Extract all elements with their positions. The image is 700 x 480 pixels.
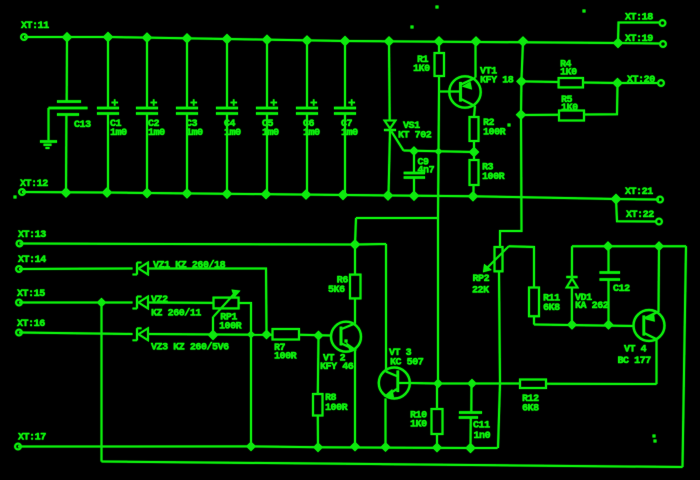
terminal XT:15 bbox=[16, 300, 22, 306]
capacitor C3 bottom plate bbox=[176, 112, 198, 114]
wire R7 left lead bbox=[267, 334, 273, 336]
transistor VT2 base bar bbox=[340, 327, 343, 346]
wire C6 top lead bbox=[306, 40, 308, 108]
junction bottom rail 2 bbox=[103, 188, 112, 197]
junction VT2 collector/XT13 node bbox=[351, 240, 360, 249]
capacitor C5 polarity plus bbox=[271, 102, 278, 104]
svg-text:XT:15: XT:15 bbox=[17, 289, 45, 300]
svg-text:1n0: 1n0 bbox=[474, 431, 491, 442]
wire VT2 emitter lead bbox=[354, 350, 356, 447]
junction C9/VS1 gate node bbox=[410, 147, 418, 155]
junction top rail 9 bbox=[385, 37, 394, 46]
svg-text:KZ 260/11: KZ 260/11 bbox=[151, 308, 201, 320]
svg-text:VZ1 KZ 260/18: VZ1 KZ 260/18 bbox=[153, 260, 226, 272]
diode VD1 triangle bbox=[567, 279, 578, 288]
junction bottom rail 9 bbox=[384, 191, 393, 200]
svg-text:VZ3 KZ 260/5V6: VZ3 KZ 260/5V6 bbox=[151, 342, 229, 354]
svg-text:XT:19: XT:19 bbox=[625, 34, 653, 45]
junction VT4 collector node bbox=[655, 242, 663, 250]
wire VT4 emitter lead bbox=[656, 339, 658, 384]
zener diode VZ3 triangle bbox=[139, 328, 149, 340]
transistor VT3 base bar bbox=[396, 371, 399, 393]
zener diode VZ1 cathode bar bbox=[136, 263, 138, 275]
junction top rail 6 bbox=[263, 35, 272, 44]
svg-text:KC 507: KC 507 bbox=[390, 358, 424, 369]
svg-text:1m0: 1m0 bbox=[224, 128, 241, 139]
capacitor C13 middle plate bbox=[49, 107, 88, 109]
wire bottom return rail bbox=[102, 462, 683, 468]
junction top rail 1 bbox=[63, 33, 72, 42]
wire C3 top lead bbox=[186, 38, 188, 108]
transistor VT3 emitter stroke bbox=[386, 389, 398, 396]
capacitor C12 bottom plate bbox=[600, 278, 621, 280]
capacitor C5 top plate bbox=[256, 107, 278, 109]
junction bottom rail 7 bbox=[302, 190, 311, 199]
transistor VT1 arrow bbox=[464, 83, 471, 88]
junction XT21 node bbox=[612, 195, 621, 204]
junction top rail 11 bbox=[472, 37, 481, 46]
junction top rail 10 bbox=[435, 37, 444, 46]
wire VZ2 line left bbox=[102, 302, 133, 304]
wire C11 bottom lead bbox=[470, 418, 472, 449]
wire VZ3 line right bbox=[148, 333, 267, 336]
transistor VT4 arrow bbox=[648, 315, 654, 320]
svg-text:1K0: 1K0 bbox=[410, 420, 427, 431]
wire C1 bottom lead bbox=[107, 114, 109, 193]
junction XT17 RP1 node bbox=[247, 442, 255, 450]
capacitor C11 top plate bbox=[459, 411, 482, 413]
junction C11 top node bbox=[468, 380, 476, 388]
wire VZ2 to RP1 bbox=[148, 302, 214, 304]
wire C2 top lead bbox=[146, 38, 148, 108]
svg-text:C11: C11 bbox=[473, 421, 490, 432]
wire R5 left lead bbox=[521, 114, 559, 116]
svg-text:5K6: 5K6 bbox=[328, 285, 345, 296]
wire VT3 base drop bbox=[385, 244, 387, 369]
svg-text:6K8: 6K8 bbox=[543, 303, 560, 314]
wire R4 left lead bbox=[521, 80, 558, 83]
wire R6 bottom lead / VT2 collector bbox=[354, 298, 356, 323]
junction bottom rail 11 bbox=[469, 192, 478, 201]
junction R7 left node bbox=[262, 330, 270, 338]
wire C6 bottom lead bbox=[306, 114, 308, 195]
capacitor C3 top plate bbox=[176, 107, 198, 109]
wire XT:13 line bbox=[20, 244, 387, 245]
resistor R5 1K0 body bbox=[559, 111, 584, 121]
capacitor C4 top plate bbox=[216, 107, 238, 109]
wire C5 bottom lead bbox=[266, 114, 268, 195]
wire R10 top lead bbox=[436, 384, 438, 410]
junction bottom rail 5 bbox=[223, 189, 232, 198]
svg-text:VT 4: VT 4 bbox=[624, 345, 647, 356]
wire R4 right lead bbox=[583, 82, 618, 85]
wire VS1 anode lead bbox=[388, 41, 391, 120]
wire VT1 base vertical bbox=[438, 92, 439, 384]
terminal XT:21 bbox=[657, 197, 663, 203]
junction XT17 R10 node bbox=[433, 443, 441, 451]
wire VT1 base bbox=[439, 91, 460, 93]
wire XT:15 net vertical bbox=[101, 303, 103, 462]
capacitor C1 bottom plate bbox=[97, 112, 119, 114]
svg-text:100R: 100R bbox=[482, 172, 505, 183]
wire bottom rail XT:12 bbox=[22, 192, 616, 199]
svg-text:100R: 100R bbox=[483, 128, 506, 139]
wire C12 top lead bbox=[608, 246, 610, 272]
transistor VT1 circle bbox=[449, 76, 480, 107]
wire XT:19 stub bbox=[618, 42, 660, 45]
svg-text:1K0: 1K0 bbox=[561, 103, 578, 114]
transistor VT4 emitter stroke bbox=[644, 333, 657, 339]
junction R4/XT20 node bbox=[613, 79, 622, 88]
transistor VT2 arrow bbox=[348, 345, 355, 351]
capacitor C1 polarity plus bbox=[112, 102, 119, 104]
wire VS1 gate lead bbox=[392, 132, 404, 151]
capacitor C7 top plate bbox=[334, 107, 356, 109]
wire C7 bottom lead bbox=[344, 114, 346, 196]
resistor R6 5K6 body bbox=[350, 275, 361, 299]
wire R1 bottom lead bbox=[438, 76, 440, 92]
junction bottom rail 4 bbox=[183, 189, 192, 198]
wire VT3 emitter lead bbox=[385, 399, 387, 448]
svg-text:XT:13: XT:13 bbox=[18, 230, 46, 241]
svg-text:1m0: 1m0 bbox=[341, 128, 358, 139]
transistor VT1 collector stroke bbox=[461, 78, 475, 85]
junction top rail 13 bbox=[614, 39, 623, 48]
terminal XT:13 bbox=[17, 241, 23, 247]
potentiometer RP1 100R body bbox=[214, 298, 239, 309]
potentiometer RP1 wiper arrow bbox=[214, 294, 235, 317]
diode VD1 cathode bar bbox=[566, 276, 577, 278]
transistor VT1 base bar bbox=[459, 82, 462, 102]
capacitor C13 top plate bbox=[57, 100, 81, 102]
svg-text:KFY 18: KFY 18 bbox=[480, 76, 514, 87]
wire C7 top lead bbox=[344, 41, 346, 108]
wire VD1 top lead bbox=[571, 246, 573, 276]
wire XT:20 stub bbox=[618, 82, 659, 84]
capacitor C2 bottom plate bbox=[136, 112, 158, 114]
junction C12 bottom node bbox=[604, 321, 612, 329]
wire C12 bottom lead bbox=[608, 280, 610, 325]
capacitor C1 top plate bbox=[97, 107, 119, 109]
svg-text:22K: 22K bbox=[472, 286, 489, 297]
svg-text:1m0: 1m0 bbox=[303, 128, 320, 139]
wire C13 bottom lead bbox=[65, 115, 67, 193]
junction bottom rail 12 bbox=[612, 195, 621, 204]
zener diode VZ1 triangle bbox=[139, 263, 149, 275]
svg-text:1K0: 1K0 bbox=[413, 64, 430, 75]
svg-text:1m0: 1m0 bbox=[262, 128, 279, 139]
junction XT17 VT2 node bbox=[351, 442, 359, 450]
capacitor C13 bottom plate bbox=[57, 113, 79, 115]
junction bottom rail 3 bbox=[143, 189, 152, 198]
svg-text:4n7: 4n7 bbox=[418, 166, 435, 177]
svg-text:1m0: 1m0 bbox=[186, 128, 203, 139]
capacitor C7 bottom plate bbox=[334, 112, 356, 114]
wire RP2 bottom lead bbox=[498, 271, 500, 448]
potentiometer RP2 22K body bbox=[495, 247, 503, 271]
wire VZ1 line right bbox=[148, 269, 267, 335]
thyristor VS1 cathode bar bbox=[384, 129, 396, 131]
terminal XT:12 bbox=[19, 189, 25, 195]
wire VS1 cathode lead bbox=[389, 131, 391, 196]
resistor R2 100R body bbox=[470, 117, 479, 141]
junction top rail 3 bbox=[143, 33, 152, 42]
zener diode VZ2 cathode bar bbox=[136, 297, 138, 309]
capacitor C7 polarity plus bbox=[349, 102, 356, 104]
wire C11 top lead bbox=[470, 384, 472, 413]
wire right supply rail to RP2 bbox=[500, 41, 523, 247]
wire VD1 bottom lead bbox=[571, 288, 573, 325]
potentiometer RP1 arrowhead bbox=[233, 291, 239, 296]
potentiometer RP2 arrowhead bbox=[484, 266, 490, 272]
ground symbol bbox=[40, 140, 57, 142]
junction XT15 node bbox=[98, 299, 106, 307]
junction VD1 bottom node bbox=[568, 321, 576, 329]
resistor R12 6K8 body bbox=[520, 380, 546, 389]
svg-text:1m0: 1m0 bbox=[110, 128, 127, 139]
wire C4 bottom lead bbox=[226, 114, 228, 194]
capacitor C6 top plate bbox=[296, 107, 318, 109]
svg-text:VZ2: VZ2 bbox=[151, 295, 168, 306]
capacitor C2 top plate bbox=[136, 107, 158, 109]
capacitor C12 top plate bbox=[600, 271, 621, 273]
junction XT17 C11 node bbox=[466, 444, 475, 453]
wire C13 top lead bbox=[66, 37, 68, 101]
wire top rail XT:11 bbox=[24, 37, 618, 43]
wire VT4 collector lead bbox=[658, 246, 661, 312]
junction VT1 base crossing bbox=[436, 149, 442, 155]
junction bottom rail 8 bbox=[339, 191, 348, 200]
transistor VT1 emitter stroke bbox=[461, 99, 475, 106]
capacitor C4 bottom plate bbox=[216, 112, 238, 114]
wire node y383 row right bbox=[546, 383, 657, 385]
zener diode VZ2 triangle bbox=[139, 297, 149, 309]
resistor R11 6K8 body bbox=[529, 288, 539, 317]
transistor VT3 base stub bbox=[398, 382, 410, 384]
junction top rail 5 bbox=[223, 35, 232, 44]
wire XT:18 branch bbox=[618, 23, 660, 44]
transistor VT3 circle bbox=[379, 368, 410, 399]
wire link y218 bbox=[356, 217, 438, 219]
terminal XT:11 bbox=[21, 34, 27, 40]
transistor VT3 arrow bbox=[386, 391, 393, 396]
junction VT1 base/y383 node bbox=[434, 380, 442, 388]
junction bottom rail 10 bbox=[410, 191, 419, 200]
wire C4 top lead bbox=[226, 39, 228, 108]
wire XT:21 stub bbox=[616, 198, 659, 201]
resistor R1 1K0 body bbox=[435, 53, 445, 76]
wire XT:22 branch bbox=[616, 199, 656, 222]
wire RP1 wiper drop bbox=[212, 317, 214, 335]
svg-text:XT:12: XT:12 bbox=[20, 179, 48, 190]
svg-text:100R: 100R bbox=[325, 403, 348, 414]
svg-text:C13: C13 bbox=[74, 120, 91, 131]
transistor VT3 collector stroke bbox=[386, 372, 398, 377]
capacitor C11 bottom plate bbox=[459, 416, 478, 418]
transistor VT4 collector stroke bbox=[644, 312, 658, 319]
resistor R8 100R body bbox=[313, 394, 323, 416]
svg-text:XT:11: XT:11 bbox=[21, 21, 49, 32]
capacitor C9 bottom plate bbox=[404, 176, 425, 178]
svg-text:XT:18: XT:18 bbox=[625, 13, 653, 24]
wire node y383 row left bbox=[410, 382, 520, 385]
terminal XT:14 bbox=[16, 266, 22, 272]
wire C9 top lead bbox=[413, 151, 415, 173]
junction top rail 7 bbox=[303, 36, 312, 45]
capacitor C2 polarity plus bbox=[151, 102, 158, 104]
wire R3 top lead bbox=[473, 152, 475, 160]
wire XT:15 line bbox=[19, 302, 102, 304]
wire XT:14 / VZ1 line left bbox=[19, 268, 133, 271]
capacitor C3 polarity plus bbox=[191, 102, 198, 104]
junction R2/R3 node bbox=[470, 148, 479, 157]
terminal XT:20 bbox=[658, 80, 664, 86]
junction XT17 VT3 node bbox=[381, 443, 389, 451]
terminal XT:19 bbox=[660, 41, 666, 47]
svg-text:6K8: 6K8 bbox=[522, 404, 539, 415]
svg-text:XT:14: XT:14 bbox=[18, 255, 46, 266]
capacitor C4 polarity plus bbox=[231, 102, 238, 104]
wire VT1 collector lead bbox=[475, 41, 477, 77]
wire C1 top lead bbox=[107, 37, 109, 108]
junction top rail 8 bbox=[341, 37, 350, 46]
terminal XT:17 bbox=[15, 444, 21, 450]
resistor R10 1K0 body bbox=[432, 409, 443, 434]
svg-text:100R: 100R bbox=[274, 352, 297, 363]
wire C13 ground branch bbox=[48, 108, 50, 140]
wire XT:17 line bbox=[18, 446, 498, 448]
svg-text:1m0: 1m0 bbox=[148, 128, 165, 139]
junction rail/R4 node bbox=[517, 77, 526, 86]
wire R7 right lead / VT2 base bbox=[299, 334, 332, 337]
wire R8 top lead bbox=[317, 336, 320, 395]
transistor VT2 emitter stroke bbox=[342, 344, 356, 350]
junction bottom rail 6 bbox=[262, 190, 271, 199]
junction rail/R5 node bbox=[517, 110, 526, 119]
svg-text:KT 702: KT 702 bbox=[398, 131, 432, 142]
wire R3 bottom lead bbox=[473, 185, 475, 196]
svg-text:XT:17: XT:17 bbox=[18, 433, 46, 444]
wire right return vertical bbox=[683, 246, 687, 467]
resistor R7 100R body bbox=[273, 329, 300, 340]
svg-text:1K0: 1K0 bbox=[560, 68, 577, 79]
junction bottom rail 1 bbox=[62, 188, 71, 197]
wire XT:16 line bbox=[19, 333, 133, 335]
wire C2 bottom lead bbox=[146, 114, 148, 193]
wire RP2 wiper to R11 bbox=[509, 246, 534, 287]
svg-text:XT:20: XT:20 bbox=[627, 75, 655, 86]
terminal XT:16 bbox=[16, 330, 22, 336]
capacitor C5 bottom plate bbox=[256, 112, 278, 114]
svg-text:XT:21: XT:21 bbox=[625, 187, 653, 198]
capacitor C9 top plate bbox=[404, 172, 425, 174]
junction top rail 12 bbox=[519, 37, 528, 46]
junction C12 top node bbox=[604, 242, 612, 250]
transistor VT2 circle bbox=[331, 322, 361, 352]
svg-text:XT:22: XT:22 bbox=[626, 210, 654, 221]
wire C9 bottom lead bbox=[413, 178, 415, 196]
svg-text:RP2: RP2 bbox=[473, 274, 490, 285]
junction R8/VT2 base node bbox=[314, 331, 322, 339]
junction XT17 R8 node bbox=[314, 443, 322, 451]
wire R11 bottom lead bbox=[533, 316, 535, 324]
capacitor C6 polarity plus bbox=[311, 102, 318, 104]
wire R6 top link bbox=[355, 218, 356, 245]
wire RP1 right lead bbox=[239, 303, 251, 446]
resistor R4 1K0 body bbox=[559, 78, 583, 87]
thyristor VS1 triangle bbox=[385, 121, 396, 129]
junction top rail 2 bbox=[104, 33, 113, 42]
svg-text:KFY 46: KFY 46 bbox=[320, 362, 354, 373]
transistor VT4 base bar bbox=[642, 316, 645, 336]
wire C5 top lead bbox=[266, 40, 268, 108]
capacitor C6 bottom plate bbox=[296, 112, 318, 114]
transistor VT4 circle bbox=[634, 310, 665, 341]
wire node C9/R2 row bbox=[404, 151, 475, 153]
junction top rail 4 bbox=[183, 34, 192, 43]
svg-text:C12: C12 bbox=[613, 284, 630, 295]
svg-text:BC 177: BC 177 bbox=[618, 356, 652, 367]
wire VT1 emitter lead bbox=[474, 106, 475, 117]
svg-text:XT:16: XT:16 bbox=[17, 319, 45, 330]
terminal XT:22 bbox=[656, 219, 662, 225]
junction RP1 wiper node bbox=[209, 331, 218, 340]
wire C3 bottom lead bbox=[186, 114, 188, 194]
wire R5 right lead bbox=[584, 83, 618, 115]
zener diode VZ3 cathode bar bbox=[136, 328, 138, 340]
transistor VT2 collector stroke bbox=[342, 324, 356, 330]
potentiometer RP2 wiper arrow bbox=[487, 246, 509, 268]
wire R6 top lead bbox=[354, 245, 356, 275]
junction RP1/VZ3 node bbox=[248, 331, 254, 337]
wire R2 bottom lead bbox=[473, 141, 475, 152]
terminal XT:18 bbox=[660, 20, 666, 26]
svg-text:KA 262: KA 262 bbox=[575, 301, 609, 312]
svg-text:100R: 100R bbox=[219, 322, 242, 333]
wire VT4 base line bbox=[534, 325, 634, 327]
wire node top line VD1/C12/VT4 bbox=[572, 245, 686, 247]
wire R10 bottom lead bbox=[436, 434, 438, 448]
wire R8 bottom lead bbox=[317, 416, 319, 448]
resistor R3 100R body bbox=[470, 160, 479, 185]
wire R1 top lead bbox=[438, 41, 440, 53]
